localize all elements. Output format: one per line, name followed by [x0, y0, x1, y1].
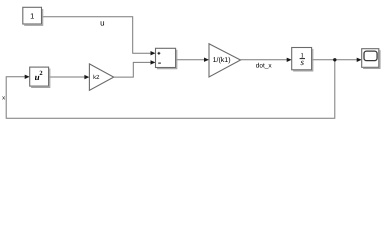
svg-text:1/(k1): 1/(k1): [213, 56, 231, 64]
svg-text:s: s: [301, 57, 305, 67]
svg-text:2: 2: [39, 70, 42, 77]
svg-text:u: u: [100, 18, 104, 27]
svg-text:k2: k2: [93, 74, 100, 81]
svg-text:dot_x: dot_x: [256, 63, 273, 70]
svg-text:x: x: [2, 96, 5, 102]
svg-text:1: 1: [30, 11, 34, 20]
